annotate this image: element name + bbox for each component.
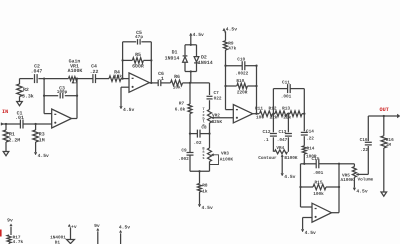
svg-text:.1: .1 bbox=[158, 76, 164, 82]
svg-text:C13: C13 bbox=[278, 130, 286, 135]
wire C8 node to VR3 top bbox=[209, 134, 211, 144]
node op2 inverting feedback tap bbox=[121, 77, 123, 79]
wire VR2 bottom to C8 node bbox=[209, 123, 211, 134]
svg-text:.002: .002 bbox=[178, 157, 189, 162]
wire op2 feedback left rail bbox=[122, 42, 124, 79]
svg-text:47p: 47p bbox=[135, 35, 143, 40]
svg-text:R10: R10 bbox=[236, 79, 244, 84]
red edge mark bbox=[0, 230, 2, 237]
net 9v battery stub bbox=[7, 218, 13, 236]
diode D1 1N914 clipper bbox=[165, 50, 188, 63]
svg-text:C15: C15 bbox=[312, 157, 320, 162]
svg-text:C10: C10 bbox=[237, 58, 245, 63]
capacitor C7 .022 bbox=[207, 91, 222, 101]
diode D3 1N4001 polarity bbox=[50, 236, 74, 244]
svg-text:C12: C12 bbox=[263, 130, 271, 135]
net 4.5v under VR5 bbox=[353, 188, 368, 195]
capacitor C8 .02 bbox=[190, 125, 210, 146]
svg-text:1k: 1k bbox=[202, 189, 208, 195]
svg-text:C9: C9 bbox=[181, 148, 187, 153]
wire op3 output rail bbox=[253, 66, 257, 114]
vertical wire C2 node down to op1 inverting bbox=[43, 79, 45, 96]
wire op1 output rail bbox=[72, 79, 78, 119]
svg-text:4.5v: 4.5v bbox=[119, 225, 130, 231]
resistor R10 220R feedback bbox=[224, 79, 257, 95]
svg-text:R11: R11 bbox=[255, 106, 263, 111]
svg-text:4.5v: 4.5v bbox=[193, 32, 204, 38]
svg-text:3.3k: 3.3k bbox=[22, 94, 34, 100]
net 4.5v at op4 bbox=[301, 229, 316, 236]
net 4.5v above diodes bbox=[190, 32, 205, 38]
node A clipping junction bbox=[189, 82, 191, 84]
wire op4 input node bbox=[301, 163, 317, 165]
svg-text:D2: D2 bbox=[201, 54, 207, 60]
svg-text:.047: .047 bbox=[31, 68, 43, 74]
svg-text:Volume: Volume bbox=[358, 176, 374, 182]
node n2 bbox=[287, 113, 289, 115]
svg-text:2.2M: 2.2M bbox=[9, 138, 21, 144]
resistor R4 10k bbox=[109, 70, 122, 82]
svg-text:D1: D1 bbox=[172, 50, 178, 56]
node R16 junction bbox=[383, 115, 385, 117]
node OUT bbox=[380, 107, 400, 118]
wire bottom tone rail bbox=[190, 170, 210, 172]
resistor R5 600R feedback bbox=[121, 52, 152, 70]
svg-text:47k: 47k bbox=[228, 45, 236, 51]
capacitor C6 .1 bbox=[158, 71, 164, 86]
svg-text:.22: .22 bbox=[90, 69, 99, 75]
ground under R2 bbox=[17, 102, 23, 106]
svg-text:C14: C14 bbox=[306, 130, 314, 135]
svg-text:Contour: Contour bbox=[258, 156, 277, 161]
wire C4 to R4 bbox=[96, 78, 110, 80]
capacitor C2 .047 bbox=[31, 64, 43, 84]
svg-text:+v: +v bbox=[71, 225, 77, 230]
wire VR5 bottom to 4.5v bbox=[353, 177, 355, 187]
wire C7 to VR2 bbox=[209, 100, 211, 109]
resistor R9 47k bbox=[224, 32, 237, 66]
svg-text:A100K: A100K bbox=[220, 158, 234, 163]
svg-text:4.5v: 4.5v bbox=[38, 153, 49, 159]
resistor R2 3.3k bbox=[17, 79, 34, 102]
svg-text:100: 100 bbox=[256, 115, 264, 120]
node IN (input terminal) bbox=[1, 109, 8, 125]
resistor R14 100R bbox=[302, 146, 317, 164]
svg-text:B100K: B100K bbox=[284, 156, 298, 161]
svg-text:10k: 10k bbox=[173, 85, 181, 91]
wire op4 output rail bbox=[332, 163, 341, 213]
wire op2 feedback right rail bbox=[150, 42, 152, 83]
capacitor C5 47p bbox=[135, 30, 143, 45]
label Bass vertical bbox=[202, 147, 205, 162]
svg-text:R3: R3 bbox=[39, 132, 45, 138]
svg-text:C8: C8 bbox=[201, 125, 207, 130]
svg-text:.02: .02 bbox=[194, 141, 202, 146]
svg-text:1N914: 1N914 bbox=[165, 55, 180, 61]
wire VR1 to C4 bbox=[77, 78, 93, 80]
op-amp U1A stage1 bbox=[52, 109, 72, 128]
svg-text:B25K: B25K bbox=[212, 120, 223, 125]
op-amp U2A stage3 bbox=[233, 105, 252, 123]
capacitor C11 .001 bridge bbox=[273, 80, 304, 113]
node feedback left bbox=[43, 95, 45, 97]
svg-text:s: s bbox=[202, 157, 204, 161]
svg-text:IN: IN bbox=[2, 109, 8, 115]
node n3 bbox=[303, 113, 305, 115]
svg-text:100p: 100p bbox=[57, 90, 68, 95]
net 9v stub 2 bbox=[94, 223, 100, 244]
svg-text:.22: .22 bbox=[306, 137, 314, 142]
svg-text:.1: .1 bbox=[263, 138, 269, 143]
svg-text:C4: C4 bbox=[91, 64, 97, 70]
svg-text:.001: .001 bbox=[281, 94, 292, 99]
op-amp U2B stage4 bbox=[312, 203, 332, 222]
ground under R16 bbox=[381, 192, 387, 196]
svg-text:9v: 9v bbox=[7, 218, 13, 224]
wire op4 non-inverting to 4.5v bbox=[303, 218, 312, 230]
wire op2 feedback top with C5 bbox=[123, 41, 152, 43]
svg-text:.01: .01 bbox=[15, 115, 24, 121]
svg-text:9v: 9v bbox=[94, 223, 100, 229]
wire OUT bbox=[368, 115, 397, 117]
potentiometer VR1 Gain A100K bbox=[68, 59, 83, 84]
resistor R11 100 bbox=[255, 106, 272, 120]
capacitor C12 .1 bbox=[263, 114, 277, 151]
resistor R16 1M bbox=[381, 116, 394, 192]
wire R4 to op2 bbox=[121, 78, 129, 80]
wire op3 out to R11 bbox=[257, 113, 260, 115]
resistor R17 4.7k bbox=[7, 235, 23, 244]
node op2 output bbox=[150, 82, 152, 84]
svg-text:OUT: OUT bbox=[380, 107, 389, 113]
svg-text:4.5v: 4.5v bbox=[123, 107, 134, 113]
wire op4 inverting rail bbox=[301, 164, 313, 207]
resistor R8 1k bbox=[198, 171, 208, 204]
wire VR5 wiper to C16 bbox=[358, 146, 368, 174]
node R8 junction bbox=[198, 170, 200, 172]
wire op1 inverting input bbox=[44, 96, 52, 114]
net 4.5v at op2 bbox=[120, 106, 135, 113]
capacitor C4 .22 bbox=[90, 64, 99, 84]
svg-text:4.5v: 4.5v bbox=[226, 26, 237, 32]
svg-text:R13: R13 bbox=[282, 106, 290, 111]
resistor R13 22k bbox=[282, 106, 304, 120]
node C1-R3 junction bbox=[34, 123, 36, 125]
svg-text:VR4: VR4 bbox=[276, 146, 284, 151]
svg-text:R6: R6 bbox=[174, 74, 180, 80]
resistor R12 22k bbox=[269, 106, 287, 120]
diode D2 1N914 clipper bbox=[194, 54, 213, 66]
net 4.5v above R9 bbox=[223, 26, 238, 33]
wire op4 output to VR5 bbox=[339, 164, 354, 167]
svg-text:R7: R7 bbox=[179, 102, 185, 107]
wire VR2 wiper to op3 non-inverting bbox=[213, 117, 233, 119]
potentiometer VR3 Bass A100K bbox=[208, 144, 234, 171]
node R7-C8-C9 junction bbox=[189, 132, 191, 134]
potentiometer VR2 Treble B25K bbox=[208, 110, 223, 125]
net 4.5v under R8 bbox=[198, 204, 213, 211]
wire op2 output to C6 bbox=[149, 82, 158, 84]
resistor R6 10k bbox=[171, 74, 183, 91]
capacitor C1 .01 bbox=[15, 111, 24, 129]
resistor R1 2.2M bbox=[3, 124, 20, 152]
wire C6 to R6 bbox=[161, 82, 171, 84]
svg-text:R15: R15 bbox=[315, 180, 323, 185]
wire diode box bottom bbox=[185, 62, 197, 83]
potentiometer VR4 Contour B100K bbox=[258, 146, 298, 173]
svg-text:D1: D1 bbox=[55, 241, 61, 244]
resistor R3 1M bbox=[33, 124, 45, 152]
svg-text:.047: .047 bbox=[277, 138, 288, 143]
capacitor C15 .001 feedback bbox=[312, 157, 339, 176]
op-amp U1B stage2 bbox=[129, 73, 149, 92]
svg-text:220R: 220R bbox=[237, 90, 248, 95]
net 4.5v stub bbox=[119, 225, 130, 244]
capacitor C9 .002 bbox=[178, 134, 193, 172]
svg-text:.22: .22 bbox=[360, 148, 368, 153]
wire C1 to node bbox=[23, 123, 52, 125]
wire node to VR1 bbox=[44, 78, 68, 80]
resistor R15 100k feedback bbox=[299, 180, 340, 197]
svg-text:R2: R2 bbox=[23, 87, 29, 93]
svg-text:.001: .001 bbox=[313, 171, 324, 176]
wire input to C1 bbox=[3, 123, 21, 125]
capacitor C13 .047 bbox=[277, 114, 292, 151]
svg-text:VR3: VR3 bbox=[221, 152, 229, 157]
wire diode stem down from 4.5v bbox=[190, 36, 192, 45]
svg-text:22k: 22k bbox=[283, 114, 291, 120]
net 4.5v under R3 bbox=[34, 152, 49, 159]
svg-text:.0022: .0022 bbox=[235, 72, 249, 77]
ground under R1 bbox=[3, 152, 9, 156]
net +v stub bbox=[68, 224, 77, 239]
wire diode box top bbox=[185, 44, 197, 57]
svg-text:R5: R5 bbox=[135, 52, 141, 58]
svg-text:R14: R14 bbox=[307, 146, 315, 151]
svg-text:C11: C11 bbox=[282, 80, 290, 85]
svg-text:1M: 1M bbox=[386, 143, 392, 148]
node C2-VR1 junction bbox=[43, 77, 45, 79]
node C8-VR2 junction bbox=[208, 132, 210, 134]
wire op1 feedback C3 branch bbox=[44, 95, 77, 97]
wire R6 to node A bbox=[183, 82, 191, 84]
capacitor C14 .22 bbox=[301, 114, 314, 146]
svg-text:.022: .022 bbox=[211, 96, 222, 101]
svg-text:4.5v: 4.5v bbox=[305, 230, 316, 236]
svg-text:C16: C16 bbox=[360, 138, 368, 143]
svg-text:4.5v: 4.5v bbox=[202, 205, 213, 211]
wire node A to C7 branch bbox=[190, 83, 210, 95]
node feedback right bbox=[76, 95, 78, 97]
wire op2 non-inverting to 4.5v bbox=[121, 87, 129, 106]
svg-text:A100K: A100K bbox=[341, 178, 355, 183]
wire op3 inverting rail bbox=[226, 66, 234, 110]
capacitor C3 100p bbox=[57, 86, 68, 99]
svg-text:A100K: A100K bbox=[68, 68, 83, 74]
svg-text:4.7k: 4.7k bbox=[13, 239, 24, 244]
net 4.5v under VR4 bbox=[281, 173, 296, 180]
svg-text:1N914: 1N914 bbox=[198, 60, 213, 66]
svg-text:1M: 1M bbox=[39, 138, 45, 144]
svg-text:4.5v: 4.5v bbox=[284, 174, 295, 180]
svg-text:4.5v: 4.5v bbox=[356, 189, 367, 195]
svg-text:R8: R8 bbox=[202, 184, 208, 189]
node R14 to op4 input bbox=[303, 163, 305, 165]
resistor R7 6.8k bbox=[175, 83, 192, 134]
svg-text:R1: R1 bbox=[9, 132, 15, 138]
capacitor C10 .0022 feedback bbox=[226, 58, 258, 77]
label Treble vertical bbox=[203, 107, 206, 128]
svg-text:100k: 100k bbox=[313, 191, 324, 197]
node n1 bbox=[272, 113, 274, 115]
potentiometer VR5 Volume A100K bbox=[341, 167, 374, 183]
node op3 output bbox=[255, 113, 257, 115]
wire gain network bbox=[20, 78, 45, 80]
capacitor C16 .22 bbox=[360, 116, 372, 153]
node VR1 right / output rail top bbox=[76, 77, 78, 79]
node R9-C10 junction bbox=[224, 65, 226, 67]
svg-text:R12: R12 bbox=[269, 106, 277, 111]
node R1 junction bbox=[5, 123, 7, 125]
svg-text:6.8k: 6.8k bbox=[175, 106, 186, 112]
svg-text:600R: 600R bbox=[132, 64, 144, 70]
